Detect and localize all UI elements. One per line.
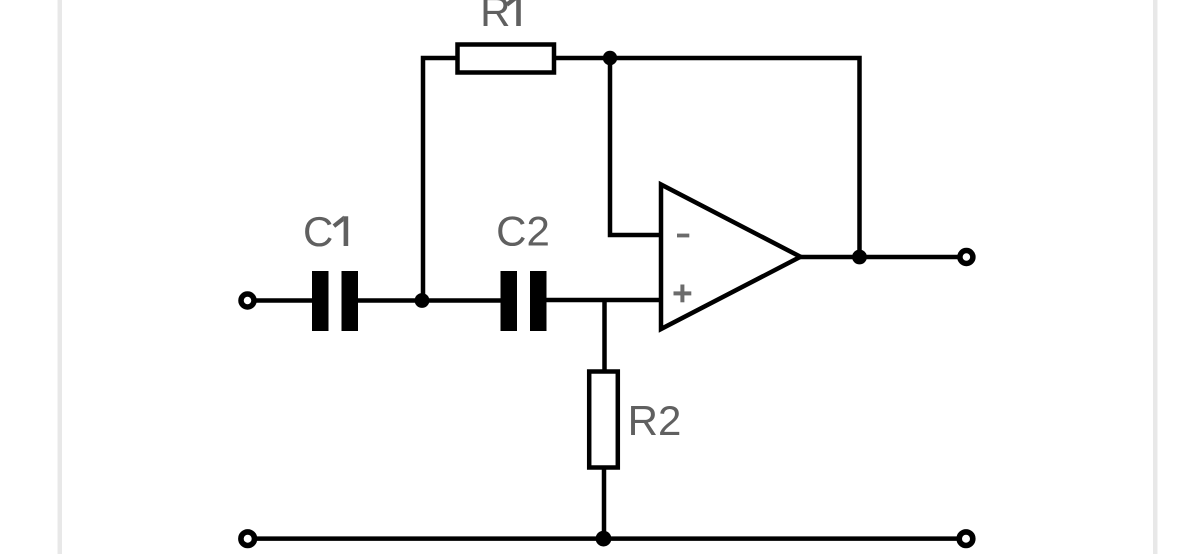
capacitor C2	[501, 271, 547, 331]
wire node A to C2	[422, 298, 502, 303]
output terminal	[960, 251, 973, 264]
svg-text:C: C	[303, 208, 333, 255]
wire op-amp output to output terminal	[800, 255, 958, 260]
wire node A up to R1 left	[423, 58, 457, 301]
ground node junction dot	[596, 531, 612, 547]
resistor R1	[458, 45, 555, 73]
node B junction dot	[603, 51, 617, 65]
node A junction dot	[415, 293, 430, 308]
svg-text:R2: R2	[628, 397, 682, 444]
bottom left terminal	[241, 532, 255, 546]
op-amp inverting input marker	[677, 234, 689, 238]
wire junction to R2 top	[602, 300, 607, 371]
resistor R2	[589, 372, 618, 468]
wire C2 to non-inverting input	[545, 298, 662, 303]
wire feedback node B to output node	[610, 58, 860, 257]
op-amp non-inverting input marker	[674, 285, 692, 303]
capacitor C1	[312, 271, 358, 331]
wire node B down to inverting input	[610, 58, 662, 235]
wire R2 bottom to ground node	[602, 468, 607, 539]
input terminal	[241, 294, 254, 307]
wire input to C1	[254, 298, 313, 303]
output node junction dot	[852, 250, 867, 265]
svg-text:C2: C2	[496, 208, 550, 255]
bottom right terminal	[959, 532, 973, 546]
svg-text:R: R	[480, 0, 510, 35]
wire bottom rail	[257, 536, 958, 541]
wire R1 right to node B	[555, 56, 612, 61]
wire C1 to node A	[357, 298, 424, 303]
op-amp U1	[661, 185, 801, 330]
